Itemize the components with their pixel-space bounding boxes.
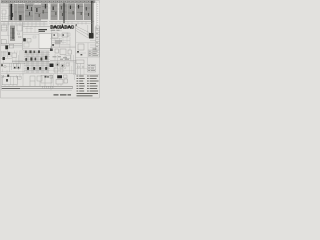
wire H-tl1 [1, 16, 9, 18]
wire V23 [52, 74, 54, 88]
wire H14c [1, 58, 12, 60]
wire H14 [1, 55, 12, 57]
tall can T1 [18, 4, 25, 21]
screen box M4 (large empty box) [39, 34, 51, 49]
coil bank L2 [10, 26, 15, 42]
border frame [1, 0, 100, 98]
caption text [54, 94, 72, 95]
capacitor C3 [3, 57, 5, 60]
wire H18b [24, 63, 50, 65]
small box U9b [58, 34, 61, 36]
wire H-right [76, 42, 95, 44]
electrolytic C2 [50, 49, 53, 52]
wire H-low1 [1, 51, 12, 53]
enclosure box S2 [41, 75, 52, 83]
M9 drop b [60, 84, 62, 86]
driver box U12 [60, 49, 66, 55]
wire V-xl5 [6, 70, 8, 74]
wire H9 [23, 32, 39, 34]
bus end tick [72, 86, 74, 89]
legend table [77, 76, 99, 97]
transistor Q2d [41, 58, 43, 61]
filter box M7b [54, 68, 58, 72]
trimmer VR1 [4, 65, 6, 67]
bus wire H2 [1, 22, 48, 24]
capacitor C6 [27, 67, 29, 70]
wire V17 [77, 64, 79, 76]
faint box mc [33, 36, 36, 38]
IC block U4 [51, 3, 58, 20]
wire H-nest [51, 77, 53, 79]
wire H7 [1, 44, 22, 46]
label dashes over box [39, 29, 48, 32]
transformer T2 [1, 40, 6, 45]
bus line B2 dark segment [2, 87, 20, 89]
driver box U13 [68, 50, 72, 54]
wire V-mc3 [66, 36, 68, 44]
IC block U1 [25, 3, 34, 20]
wire V-xl4 [2, 69, 4, 72]
speaker box LS1 [78, 44, 84, 50]
wire V9b [4, 51, 6, 57]
dot box D1 [13, 64, 16, 69]
wire V21 [0, 77, 2, 90]
filter box M5 [56, 63, 59, 66]
wire V8 [75, 25, 77, 75]
wire H9a [25, 28, 33, 30]
bus wire H4b [1, 24, 48, 26]
transistor Q1c [33, 51, 35, 53]
box drop b [8, 85, 10, 87]
wire H15 [1, 71, 25, 73]
wire V18 [80, 64, 82, 76]
connector strip J1 [1, 1, 96, 3]
wire H22 [50, 61, 76, 63]
wire V-m8 [69, 62, 71, 74]
wire right margin [96, 3, 98, 28]
tie wire T-a [13, 8, 18, 10]
mark below K1 a [18, 33, 20, 35]
wire H17 [24, 56, 50, 58]
tie wire T-e [57, 8, 59, 10]
dark mark r1 [77, 51, 79, 53]
potentiometer P-b [82, 66, 84, 68]
wire H-can3 [90, 46, 96, 48]
coil bank L1 with shield [9, 3, 14, 20]
wire V-xl1 [1, 51, 3, 57]
transistor Q2e [45, 56, 47, 60]
wire V6 [51, 31, 53, 50]
wire H5c [1, 29, 8, 31]
capacitor C10 [7, 75, 9, 77]
M9 drop a [57, 84, 59, 86]
bus drop ticks right [52, 22, 86, 25]
wire H16d [24, 68, 50, 70]
wire H14e [12, 60, 23, 62]
IC block U2 [34, 5, 41, 21]
tie wire T-h [83, 9, 84, 11]
wire H-mc1 [52, 40, 70, 42]
transistor Q1d [38, 51, 40, 54]
wire V-m6 [59, 62, 61, 69]
power unit box [2, 76, 17, 85]
bus wire H1 [1, 21, 48, 23]
dark mark U11m [50, 49, 53, 52]
wire V-mr [70, 55, 72, 60]
bus wire under connector strip [1, 2, 96, 4]
wire H5b [1, 27, 8, 29]
tie wire T-b [33, 6, 34, 8]
relay K2 [9, 44, 14, 48]
wire H16b [24, 54, 50, 56]
filter box M7 [66, 63, 69, 66]
wire H19 [24, 64, 50, 66]
wire V-m5 [54, 62, 56, 74]
wire H-mc2 [52, 42, 66, 44]
box drop c [12, 85, 14, 87]
antenna diagonals [76, 26, 90, 38]
wire V-m9 [71, 66, 73, 74]
control box M10 [64, 79, 68, 83]
wire V20b [19, 74, 21, 78]
label plate P2 [57, 75, 62, 78]
wire V-m7 [64, 62, 66, 67]
IC block U8 [84, 3, 91, 20]
wire V-m4 [74, 62, 76, 80]
shielded pair W1 upper [63, 3, 64, 23]
filter box M6 [61, 64, 64, 67]
capacitor C5a [1, 64, 3, 66]
capacitor C8 [39, 67, 41, 70]
wire H10 [23, 48, 51, 50]
right margin wire [96, 2, 98, 28]
wire H-can2 [90, 44, 96, 46]
filter box M7c [60, 69, 63, 72]
small box U10b [67, 33, 70, 36]
bus ladder ticks [43, 86, 53, 88]
pin dashes right edge [97, 4, 98, 25]
bus line B2 [2, 87, 73, 89]
wire V-right [87, 25, 89, 36]
wire H23 [76, 57, 89, 59]
output stage comb [25, 51, 49, 73]
right margin [94, 3, 99, 27]
label plate P1 [50, 64, 54, 68]
wire V-xl2 [12, 58, 14, 63]
terminal strip X1 [96, 26, 100, 50]
small box M7d [64, 75, 68, 78]
wire H20 [24, 70, 50, 72]
wire V16 [73, 55, 75, 75]
wire V-mc2 [62, 37, 64, 44]
electrolytic C1 [5, 46, 8, 50]
bus wire H4 [49, 22, 95, 24]
wire H9b [23, 33, 39, 35]
wire V14 [11, 63, 13, 70]
relay K3 [18, 76, 21, 79]
tie wire T-d [48, 7, 51, 9]
terminal table X3 [88, 65, 96, 73]
wire V20c [22, 74, 24, 86]
transistor Q2b [30, 57, 32, 60]
tie wire T-g [75, 7, 77, 9]
wire H-mc3 [50, 45, 76, 47]
wire V13 [9, 63, 11, 72]
pot circle b [64, 67, 66, 69]
IC block U6 [67, 3, 75, 20]
small outline bl [2, 75, 4, 77]
control box M9 [56, 80, 63, 85]
potentiometer P-a [78, 66, 80, 68]
capacitor C4 [8, 52, 10, 55]
wire H-can1 [90, 40, 96, 42]
wire V1b [7, 25, 9, 36]
wire H14d [1, 50, 10, 52]
pot circle a [60, 67, 62, 69]
bus drop ticks [4, 22, 44, 27]
faint box M2b [24, 43, 29, 47]
dark mark r2 [81, 54, 83, 55]
wire V-can [87, 43, 89, 50]
wire stub V-a [2, 14, 4, 21]
bus line B1 [2, 85, 73, 87]
entry wires left [1, 4, 9, 9]
wire H10b [23, 49, 51, 51]
box drop d [16, 85, 18, 87]
wire H14b [1, 53, 8, 55]
wire H11b [52, 44, 70, 46]
wire stub V-b [4, 14, 6, 21]
wire H5 [1, 35, 10, 37]
wire H21 [50, 59, 76, 61]
wire H-tl2 [1, 18, 9, 20]
wire H-r53 [76, 52, 86, 54]
box drop a [4, 85, 6, 87]
IC block U3 [41, 3, 48, 19]
wire V11 [18, 55, 20, 70]
wire V2 [22, 22, 24, 50]
transistor Q1b [29, 51, 31, 54]
wire V-m3 [70, 55, 72, 61]
wire V7 [69, 37, 71, 50]
IC block U5 [59, 3, 67, 20]
transistor Q1a [25, 51, 27, 54]
wire V20 [16, 75, 18, 78]
wire V1 [8, 15, 10, 44]
wire V-mc1 [54, 38, 56, 44]
switch bank S1 [30, 76, 45, 86]
choke L3 [12, 53, 17, 58]
wire H18 [12, 61, 50, 63]
wire H-m10 [50, 70, 75, 72]
wire H-ml [12, 46, 22, 48]
wire H6 [1, 43, 22, 45]
wire V22 [50, 74, 52, 90]
wire V9 [2, 51, 4, 64]
tuner can M3 [89, 33, 94, 39]
small dark module M1 [23, 38, 26, 41]
capacitor C9 [45, 67, 47, 70]
wire H15b [1, 66, 12, 68]
wire H8 [23, 25, 50, 27]
IC block U7 [76, 3, 83, 20]
bus line B3 [2, 89, 73, 91]
wire H16c [24, 58, 50, 60]
wire V10 [7, 50, 9, 58]
wire V17b [83, 64, 85, 75]
capacitor C7 [33, 67, 35, 70]
shielded pair W2 [91, 1, 93, 33]
mark below K1 b [19, 36, 22, 38]
tie wire T-f [66, 10, 68, 12]
separator line right [76, 74, 99, 76]
transistor Q2a [25, 58, 27, 61]
small box M7e [50, 75, 53, 78]
title text [50, 25, 74, 31]
dark dot U10 [63, 34, 64, 36]
wire V7b [59, 38, 61, 48]
junction box A1 [2, 10, 6, 14]
dark comp mc [52, 44, 54, 46]
dark dot U9 [54, 34, 55, 36]
amp box U9 [52, 33, 58, 38]
wire V12 [22, 50, 24, 75]
ballast box M8 [76, 60, 84, 64]
bus wire H3 [49, 21, 95, 23]
wire under title [50, 30, 62, 32]
wire H-low2 [1, 73, 76, 75]
small box M2 [27, 39, 31, 43]
tie wire T-c [40, 9, 42, 11]
det box U10 [62, 33, 68, 37]
resistor group R1 [14, 4, 17, 21]
driver box U11 [55, 49, 59, 53]
terminal table X2 [88, 50, 100, 57]
dot box D2 [17, 64, 20, 69]
wire H13 [1, 62, 25, 64]
small box mr [66, 56, 71, 59]
wire V-ll1 [14, 51, 16, 54]
title subtext [51, 29, 60, 32]
svg-text:DAC: DAC [64, 25, 74, 31]
wire V15 [57, 55, 59, 75]
wire H11 [50, 47, 76, 49]
junction box A2 [1, 25, 7, 31]
text above X2 [93, 48, 97, 51]
wire V19 [3, 75, 5, 78]
wire V-m1 [54, 54, 56, 60]
transistor Q2c [35, 58, 37, 61]
wire H12 [50, 38, 62, 40]
wire V-ll2 [19, 51, 21, 64]
value labels [55, 41, 62, 44]
drop wires mc [27, 26, 35, 32]
relay K1 [17, 25, 22, 31]
wire H16 [24, 51, 50, 53]
wire V-m2 [64, 55, 66, 60]
wire H-r68 [76, 68, 88, 70]
wire V9c [15, 58, 17, 63]
wire V-xl3 [16, 51, 18, 54]
label dashes mid [53, 57, 70, 60]
wire V-x2 [87, 58, 89, 65]
wire V9d [20, 50, 22, 63]
